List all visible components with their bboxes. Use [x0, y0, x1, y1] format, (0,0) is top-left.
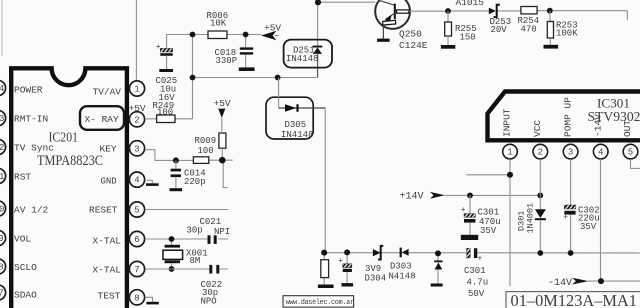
svg-text:8M: 8M: [190, 256, 201, 266]
svg-text:AV 1/2: AV 1/2: [14, 205, 49, 216]
IC301 pin 5 OUT: [622, 120, 638, 159]
svg-text:R009: R009: [195, 136, 217, 146]
-14V arrow: [548, 278, 589, 289]
+14V arrow: [400, 192, 445, 203]
wire +14V rail: [445, 194, 541, 196]
ground (C018): [239, 67, 255, 71]
svg-text:RST: RST: [14, 171, 31, 182]
ground (pin 8 TEST stub): [145, 297, 159, 304]
capacitor C301 4.7u (series): [464, 248, 488, 299]
wire pin3 down through C302: [570, 159, 572, 253]
svg-text:35V: 35V: [580, 222, 597, 232]
pin 13 RMT-IN: [0, 110, 48, 125]
svg-text:+5V: +5V: [264, 23, 281, 34]
capacitor C025: [156, 43, 178, 103]
X-RAY box: [80, 106, 124, 130]
svg-text:GND: GND: [101, 176, 117, 186]
zener diode D304 3V9: [365, 246, 387, 283]
wire top net y=2.2: [318, 1, 375, 3]
svg-text:OUT: OUT: [622, 120, 633, 137]
svg-text:IN4148: IN4148: [281, 130, 313, 140]
svg-text:VCC: VCC: [532, 120, 543, 137]
wire -14V rail: [588, 280, 640, 282]
svg-text:+5V: +5V: [214, 98, 231, 109]
svg-text:www.daselec.com.ar: www.daselec.com.ar: [286, 299, 354, 307]
pin 1 TV/AV: [93, 81, 145, 98]
svg-text:150: 150: [460, 33, 476, 43]
svg-text:100: 100: [198, 146, 214, 156]
pin 9 VOL: [0, 230, 31, 245]
resistor R009 (horizontal): [193, 157, 208, 164]
wire pin3 KEY net: [145, 150, 233, 161]
svg-text:VOL: VOL: [14, 234, 31, 245]
svg-text:4: 4: [598, 148, 603, 158]
wire pin2 VCC down through D301: [539, 159, 541, 253]
pin 12 TV Sync: [0, 139, 54, 154]
svg-text:X-TAL: X-TAL: [93, 235, 122, 246]
wire +5V arrow to R009 and down: [222, 118, 228, 188]
+5V arrow (top): [261, 23, 281, 41]
wire bottom main net y=252.8: [324, 252, 640, 254]
wire pin5 OUT: [631, 159, 640, 168]
svg-text:50V: 50V: [468, 289, 485, 299]
svg-text:8: 8: [134, 293, 139, 303]
IC301 pin 2 VCC: [532, 120, 548, 159]
svg-text:35V: 35V: [480, 226, 497, 236]
svg-text:3: 3: [134, 144, 139, 154]
transistor Q250: [375, 0, 428, 51]
ground (R253): [544, 45, 559, 49]
svg-text:330P: 330P: [216, 56, 238, 66]
pin 7 SDAO: [0, 285, 37, 300]
IC301 body: [488, 92, 640, 141]
watermark box www.daselec.com.ar: [283, 296, 354, 308]
diode D301 1N4001: [517, 203, 546, 234]
part number box 01-0M123A-MA1: [506, 291, 640, 308]
diode D305 box: [266, 78, 325, 141]
node dots crystal: [169, 236, 175, 242]
svg-text:100K: 100K: [556, 29, 578, 39]
zener diode D253: [489, 5, 511, 35]
svg-text:5: 5: [628, 148, 633, 158]
svg-text:+5V: +5V: [129, 103, 146, 114]
svg-text:30p: 30p: [187, 226, 203, 236]
wire from pin 1 up: [135, 0, 137, 81]
ground (bottom electrolytic): [342, 283, 354, 286]
wire vertical x=192.5: [192, 35, 194, 119]
svg-text:220p: 220p: [184, 177, 206, 187]
svg-text:A1015: A1015: [456, 0, 485, 8]
svg-text:7: 7: [134, 265, 139, 275]
node dots bottom net: [321, 250, 327, 256]
resistor R006: [207, 11, 229, 39]
wire collector net y=11: [408, 11, 627, 20]
resistor R009 (vertical) + labels: [195, 133, 226, 156]
svg-text:D304: D304: [365, 273, 387, 283]
crystal X001: [163, 239, 208, 269]
svg-text:4: 4: [134, 176, 139, 186]
wire pin2 to R249: [145, 118, 193, 120]
pin 6 X-TAL: [93, 231, 145, 246]
capacitor C014: [171, 160, 206, 188]
svg-text:1: 1: [134, 85, 139, 95]
pin 4 GND: [101, 172, 145, 187]
svg-text:POMP UP: POMP UP: [562, 97, 573, 137]
wire +5V rail y=34.5: [167, 35, 279, 49]
IC301 pin 1 INPUT: [502, 108, 518, 159]
svg-text:8: 8: [0, 263, 4, 273]
wire pin1 INPUT down: [509, 159, 511, 286]
svg-text:+: +: [478, 255, 483, 264]
pin 8 TEST: [98, 290, 145, 305]
node dots KEY net: [173, 157, 179, 163]
svg-text:RMT-IN: RMT-IN: [14, 113, 48, 124]
node dot at R253: [547, 8, 553, 14]
svg-text:1N4001: 1N4001: [526, 203, 536, 234]
node dot at R255: [445, 8, 451, 14]
IC301 pin 3 POMP UP: [562, 97, 578, 159]
svg-text:NPI: NPI: [214, 227, 230, 237]
ground (Q250 emitter): [377, 39, 390, 42]
svg-text:C301: C301: [464, 266, 486, 276]
pin 7 X-TAL: [93, 261, 145, 276]
pin 11 RST: [0, 168, 31, 183]
svg-text:INPUT: INPUT: [502, 108, 513, 137]
resistor R254: [518, 7, 540, 35]
svg-text:Q250: Q250: [399, 29, 422, 40]
diode D303 N4148: [389, 248, 416, 282]
wire stub at y=174.8: [466, 174, 510, 176]
svg-text:6: 6: [134, 235, 139, 245]
wire pin4 down: [600, 159, 602, 281]
wire pin 7 X-TAL: [145, 268, 228, 270]
capacitor C021: [187, 217, 231, 244]
wire vertical through D251: [317, 2, 319, 45]
svg-text:10K: 10K: [210, 19, 227, 29]
svg-text:12: 12: [0, 143, 4, 153]
resistor R253: [547, 11, 578, 45]
svg-text:X-TAL: X-TAL: [93, 264, 122, 275]
svg-text:SCLO: SCLO: [14, 262, 37, 273]
svg-text:TV Sync: TV Sync: [14, 142, 54, 153]
ground (bottom resistor): [318, 285, 334, 289]
ground (C014): [170, 188, 182, 191]
capacitor (bottom electrolytic at x=347): [338, 252, 352, 283]
svg-text:+14V: +14V: [400, 192, 424, 203]
svg-text:9: 9: [0, 234, 4, 244]
svg-text:KEY: KEY: [100, 144, 117, 155]
svg-text:470: 470: [521, 24, 537, 34]
resistor R249: [153, 101, 176, 123]
svg-text:POWER: POWER: [14, 84, 43, 95]
wire top-left into pin 14: [1, 0, 3, 56]
capacitor C018: [215, 35, 254, 68]
pin 10 AV 1/2: [0, 201, 49, 216]
resistor (bottom, unlabeled): [321, 253, 329, 285]
svg-text:TEST: TEST: [98, 291, 121, 302]
svg-text:C124E: C124E: [399, 40, 428, 51]
diode (vertical at x=438): [434, 253, 442, 283]
pin 5 RESET: [89, 202, 145, 217]
svg-text:5: 5: [134, 206, 139, 216]
svg-text:100: 100: [157, 108, 173, 118]
svg-text:C021: C021: [200, 217, 222, 227]
svg-text:1: 1: [507, 148, 512, 158]
resistor R255: [445, 11, 477, 45]
svg-text:D305: D305: [285, 120, 307, 130]
node dot pin1 stub: [507, 172, 513, 178]
pin 3 KEY: [100, 141, 145, 156]
IC201 body: [11, 68, 127, 308]
svg-text:+: +: [156, 43, 161, 52]
pin 2 X-RAY: [129, 112, 144, 127]
svg-text:-14V: -14V: [592, 114, 603, 137]
wire from D305 down to bottom net: [324, 108, 326, 253]
ground (diode at x=438): [431, 284, 443, 287]
IC301 pin 4 -14V: [592, 114, 608, 159]
node dot -14V rail: [598, 278, 604, 284]
svg-text:10: 10: [0, 205, 4, 215]
svg-text:-14V: -14V: [548, 278, 572, 289]
svg-text:RESET: RESET: [89, 205, 118, 216]
wire pin 5 RESET: [145, 209, 228, 211]
svg-text:13: 13: [0, 114, 4, 124]
node dots +14V rail: [467, 193, 473, 199]
svg-text:IC301: IC301: [597, 96, 630, 111]
svg-text:2: 2: [134, 115, 139, 125]
svg-text:7: 7: [0, 289, 4, 299]
svg-text:X- RAY: X- RAY: [85, 114, 120, 125]
capacitor C022: [201, 265, 223, 306]
svg-text:D303: D303: [390, 261, 412, 271]
capacitor C302: [563, 205, 599, 232]
svg-text:20V: 20V: [491, 25, 508, 35]
wire pin 6 X-TAL: [145, 238, 228, 240]
+5V arrow (KEY pullup): [214, 98, 231, 118]
ground (C301 470u): [461, 235, 478, 240]
capacitor C301 470u: [461, 195, 501, 236]
pin 8 SCLO: [0, 259, 37, 274]
pin 14 POWER: [0, 80, 43, 95]
svg-text:+: +: [338, 257, 343, 266]
svg-text:NPO: NPO: [201, 296, 217, 306]
svg-text:SDAO: SDAO: [14, 289, 37, 300]
svg-text:C301: C301: [478, 208, 500, 218]
ground (R255): [441, 45, 455, 49]
node junction dots top area: [190, 32, 196, 38]
svg-text:2: 2: [538, 148, 543, 158]
wire y=77.5: [193, 77, 318, 79]
svg-text:TMPA8823C: TMPA8823C: [37, 153, 103, 169]
svg-text:+: +: [563, 213, 568, 222]
svg-text:14: 14: [0, 84, 4, 94]
svg-text:01–0M123A–MA1: 01–0M123A–MA1: [511, 291, 638, 308]
svg-text:11: 11: [0, 172, 4, 182]
svg-text:4.7u: 4.7u: [467, 278, 489, 288]
diode D251 box: [284, 40, 332, 68]
svg-text:3: 3: [568, 148, 573, 158]
svg-text:IN4148: IN4148: [286, 54, 318, 64]
svg-text:N4148: N4148: [389, 271, 416, 281]
ground (C025): [159, 69, 173, 72]
ground (pin 4 GND stub): [146, 180, 159, 186]
svg-text:TV/AV: TV/AV: [93, 87, 122, 98]
